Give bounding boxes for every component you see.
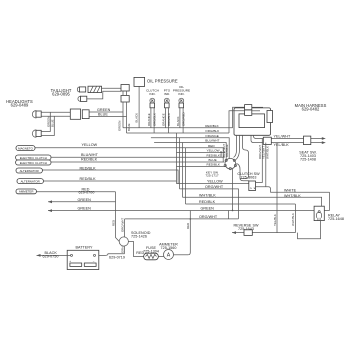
svg-text:A: A [167,253,171,259]
alternator box 1 [16,168,42,173]
bus red/blk lower [186,203,296,205]
svg-text:ORG/BLK: ORG/BLK [167,113,171,126]
svg-text:GREEN: GREEN [97,108,111,112]
svg-text:RED: RED [136,251,144,255]
oil pressure switch box [134,77,145,86]
taillight label [51,88,72,97]
wire blue drop to bus [126,102,128,133]
svg-text:629-0719: 629-0719 [109,256,125,260]
taillight bulb 2 [78,96,87,101]
wire alternator 2 [43,180,176,182]
svg-text:629-0700: 629-0700 [79,191,95,195]
seat wires [254,135,324,138]
svg-text:RED/BLK: RED/BLK [80,167,97,171]
headlights label [6,99,33,108]
green ground wire 1 [48,201,116,203]
svg-text:ALTERNATOR: ALTERNATOR [21,180,40,184]
svg-text:WHT/BLK: WHT/BLK [291,213,295,226]
wire headlight2 riser 1 [41,112,50,131]
clutch ind label [146,89,159,97]
svg-text:GREEN: GREEN [201,207,215,211]
ammeter label [159,242,178,250]
indicator lamp 2 (pto) [164,98,169,108]
bus BLU/WHT [154,143,226,161]
svg-text:629-0895: 629-0895 [52,92,70,97]
svg-text:BLUE: BLUE [127,123,131,131]
verticals from connector bottom into key switch [234,135,237,157]
key switch label [205,170,219,177]
lamp2 wires down [165,108,168,133]
taillight connector C [121,85,129,92]
wire BLUE from connector [89,116,126,118]
taillight shielded lead [88,86,102,92]
svg-text:YEL/WHT: YEL/WHT [274,135,291,139]
wire taillight1 to connector C [102,87,122,89]
bus yellow lower [177,183,249,185]
fuse label [143,246,159,254]
wht/blk corner to relay top [321,197,323,210]
wires from plug right [252,106,263,108]
wire electric clutch 2 [51,161,224,163]
svg-text:ORANGE: ORANGE [162,113,166,126]
electric clutch box 2 [16,160,51,165]
lamp3 wires down [180,108,183,133]
bus white from clutch switch [256,187,330,193]
electric clutch box 1 [16,155,51,160]
solenoid body [119,237,128,246]
green ground bus 2 [48,210,330,212]
main harness label [295,103,327,112]
reverse switch box [244,230,252,236]
svg-text:+: + [69,259,71,263]
svg-text:ORG/RED: ORG/RED [181,112,185,126]
svg-text:BLUE: BLUE [51,119,55,127]
wire black drop from oil switch [138,86,140,127]
headlight connector B [82,110,89,119]
svg-text:BLU/WHT: BLU/WHT [205,139,219,143]
svg-text:ORG/WHT: ORG/WHT [199,215,218,219]
clutch switch label [237,172,260,180]
headlight lamp 1 [32,111,41,118]
wire headlight2 riser 2 [41,116,54,135]
svg-text:725-1304: 725-1304 [143,249,159,253]
white wire corner to relay [329,192,331,210]
svg-text:YELLOW: YELLOW [207,149,220,153]
svg-text:WHITE: WHITE [284,189,297,193]
indicator lamp 3 (oil) [179,98,184,108]
svg-text:RED/BLK: RED/BLK [80,177,97,181]
svg-text:725-1426: 725-1426 [131,235,147,239]
svg-text:ALTERNATOR: ALTERNATOR [20,169,39,173]
svg-text:ORG/WHT: ORG/WHT [120,218,124,232]
wire red/blk into key bottom [177,166,226,168]
svg-text:GREEN: GREEN [78,207,92,211]
wire key yellow [177,152,226,154]
bus org/wht lower [180,189,239,219]
svg-text:WHT/BLK: WHT/BLK [265,146,269,159]
svg-text:ELECTRIC CLUTCH: ELECTRIC CLUTCH [20,161,47,165]
svg-text:BLUE: BLUE [209,158,217,162]
svg-text:IND.: IND. [149,92,155,96]
svg-text:725-3063: 725-3063 [241,176,257,180]
svg-text:ORANGE: ORANGE [147,113,151,126]
bundle verticals from upper buses [176,133,178,184]
svg-text:OIL PRESSURE: OIL PRESSURE [147,79,178,84]
svg-text:YEL/BLK: YEL/BLK [274,143,290,147]
svg-text:RED: RED [111,220,115,226]
seat switch label [299,151,316,162]
svg-text:ORG/BLK: ORG/BLK [152,113,156,126]
svg-text:BLACK: BLACK [176,116,180,126]
wire key red/blk bottom [42,170,178,184]
headlight connector A [70,109,80,119]
svg-text:ORANGE: ORANGE [225,144,229,157]
svg-text:RED: RED [186,223,190,229]
junction dot key green [232,210,234,212]
reverse switch label [233,224,259,232]
svg-text:629-0489: 629-0489 [11,103,29,108]
bus org/wht solenoid [125,218,239,220]
vertical feed 2 from harness [265,143,267,187]
connector right tab [267,111,273,123]
wire GREEN from connector [89,111,123,113]
svg-text:WHT/BLK: WHT/BLK [284,194,301,198]
svg-text:ORG/BLK: ORG/BLK [205,129,220,133]
svg-text:AMMETER: AMMETER [19,190,34,194]
battery cable to solenoid [96,254,125,256]
taillight bulb 1 [77,87,85,92]
svg-text:RED/BLK: RED/BLK [199,200,216,204]
relay box [314,206,324,220]
svg-text:GRN: GRN [120,247,124,253]
svg-text:IND.: IND. [178,92,184,96]
battery box [67,250,99,269]
seat switch box [304,136,311,145]
solenoid label [131,231,151,239]
battery black ground cable [37,254,71,256]
oil pressure ind label [173,85,190,96]
bus RED/BLK [123,127,233,129]
svg-text:GREEN: GREEN [118,121,122,131]
svg-text:IND.: IND. [164,92,170,96]
svg-text:RED/BLK: RED/BLK [81,157,98,161]
wire key switch right to clutch feed [236,164,248,184]
ammeter feed box [16,189,36,194]
junction dot L6 [190,218,192,220]
connector top plug squares [245,105,252,110]
magneto box [16,146,35,151]
svg-text:ORANGE: ORANGE [205,134,219,138]
connector inner box [239,114,265,128]
wire ammeter right [174,254,189,256]
headlight lamp 2 [32,130,41,137]
wires from plug left, down [233,107,245,127]
svg-text:725-1408: 725-1408 [300,158,316,162]
wire headlight1 pair to connector [41,111,70,113]
vertical wht/blk right [294,204,296,233]
relay bottom loop [298,221,321,239]
svg-text:ORG/WHT: ORG/WHT [205,185,224,189]
bus wht/blk [183,196,323,198]
svg-text:725-1648: 725-1648 [328,217,344,221]
inline connector on seat wires [263,137,271,144]
svg-text:YELLOW: YELLOW [82,143,98,147]
svg-text:WHT/BLK: WHT/BLK [199,193,216,197]
wire green drop to bus [122,102,124,128]
indicator lamp 1 (clutch) [150,98,155,108]
svg-text:629-0482: 629-0482 [302,107,320,112]
svg-text:725-1717: 725-1717 [205,174,219,178]
connector outer box [234,108,271,135]
svg-text:MAGNETO: MAGNETO [18,146,33,150]
wire magneto yellow / red to key [35,148,223,162]
svg-text:BATTERY: BATTERY [75,245,93,249]
vertical red collector [116,192,120,242]
svg-text:629-0750: 629-0750 [43,255,59,259]
svg-text:RED/BLK: RED/BLK [207,163,221,167]
ammeter body [164,250,174,260]
svg-text:YEL/BLK: YEL/BLK [273,214,277,226]
svg-text:ELECTRIC CLUTCH: ELECTRIC CLUTCH [20,156,47,160]
solenoid ground wire [124,246,126,254]
svg-text:−: − [93,259,95,263]
svg-text:BLUE: BLUE [98,113,108,117]
clutch switch box [249,181,256,191]
wires out of key switch down [232,169,234,211]
wire red to solenoid vertical [36,191,115,193]
wire connector C-D links [123,91,127,96]
vertical red from ammeter line [188,210,190,254]
svg-text:BLACK: BLACK [134,113,138,123]
wire electric clutch 1 [51,156,225,158]
lamp1 wires down [151,108,154,133]
alternator box 2 [17,179,43,184]
wire clutch switch right upper [256,139,263,183]
svg-text:RED: RED [208,144,215,148]
wire taillight2 step up [87,91,121,99]
wire fuse to ammeter [158,256,164,258]
wire solenoid to fuse [128,242,143,257]
solenoid wire org/wht down [124,219,126,237]
svg-text:RED/BLK: RED/BLK [205,124,219,128]
svg-text:YELLOW: YELLOW [207,180,223,184]
pto ind label [164,89,171,97]
fuse body [144,253,159,260]
reverse switch wire [232,232,295,234]
key switch body [224,158,236,169]
relay label [328,214,344,222]
bus ORANGE [151,138,229,159]
bus ORG/BLK [127,132,230,134]
taillight connector D [121,96,129,103]
vertical yel/blk from seat wire [276,143,278,233]
svg-text:GREEN: GREEN [78,198,92,202]
